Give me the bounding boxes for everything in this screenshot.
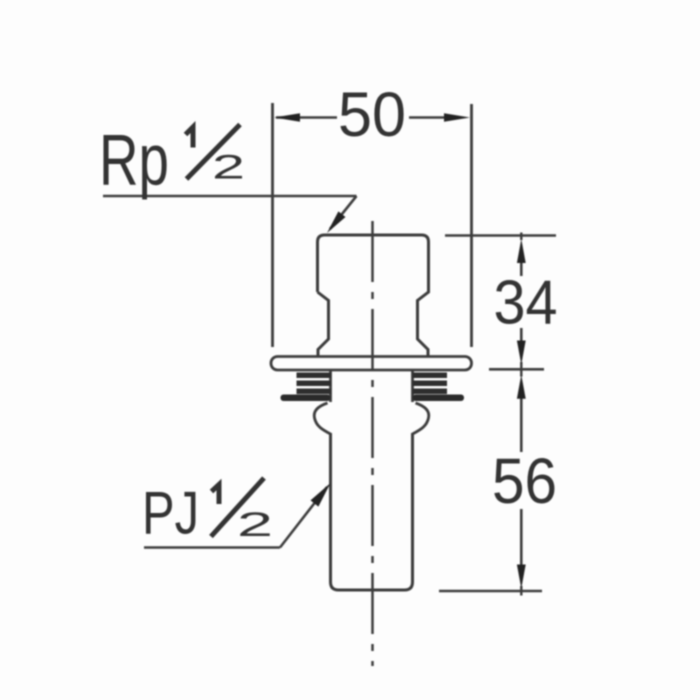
right hook curve under washer xyxy=(413,403,429,434)
centerline xyxy=(371,221,374,666)
left washer bar xyxy=(281,395,331,402)
arrow 34 bottom xyxy=(517,341,526,365)
svg-text:2: 2 xyxy=(237,506,273,544)
Rp fraction numerator 1 xyxy=(186,127,194,148)
PJ fraction numerator 1 xyxy=(212,485,220,505)
svg-text:34: 34 xyxy=(494,269,558,338)
Rp fraction slash xyxy=(187,125,241,180)
arrow 56 bottom xyxy=(517,565,526,589)
svg-text:Rp: Rp xyxy=(99,121,169,201)
left hook curve under washer xyxy=(314,403,330,434)
shared extension line (flange bottom) xyxy=(489,368,544,371)
svg-text:2: 2 xyxy=(212,149,245,187)
arrow 34 top xyxy=(517,239,526,263)
dim 50 dimension line right segment xyxy=(409,116,446,119)
svg-text:PJ: PJ xyxy=(142,480,199,547)
dim 34 top extension line xyxy=(445,234,556,237)
Rp leader diagonal xyxy=(330,196,357,229)
dim 50 right extension line xyxy=(470,104,473,347)
thread hatch left block xyxy=(297,373,332,395)
dim 34 line segments xyxy=(520,261,523,276)
flange capsule xyxy=(271,357,472,371)
dim 50 left extension line xyxy=(271,103,274,347)
arrow 50 left xyxy=(274,113,300,122)
Rp leader underline xyxy=(103,195,357,198)
thread hatch right block xyxy=(413,373,448,395)
body outline (top block, neck, lower flare) xyxy=(318,235,429,357)
arrow 56 top xyxy=(517,375,526,399)
PJ leader underline xyxy=(144,546,280,549)
PJ fraction slash xyxy=(211,478,264,537)
shank edges below flange xyxy=(329,370,332,402)
PJ leader diagonal xyxy=(280,487,327,548)
pipe outline xyxy=(331,433,413,590)
dim 56 line segments xyxy=(520,397,523,452)
svg-text:50: 50 xyxy=(338,80,406,150)
arrowheads xyxy=(274,113,526,588)
right washer bar xyxy=(413,395,465,402)
arrow PJ leader xyxy=(311,483,331,507)
dim 50 dimension line left segment xyxy=(276,116,337,119)
dim line crossing stubs xyxy=(520,233,522,241)
arrow 50 right xyxy=(444,113,470,122)
svg-text:56: 56 xyxy=(492,445,557,517)
arrow Rp leader xyxy=(327,211,346,233)
dim 56 bottom extension line xyxy=(439,590,542,593)
